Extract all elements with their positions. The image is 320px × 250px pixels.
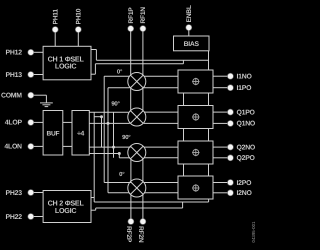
wire RF2N to mixer I2 xyxy=(142,195,144,219)
pin PH11 xyxy=(52,27,58,33)
wire RF1N to mixer I1 xyxy=(142,31,144,75)
svg-text:Q2NO: Q2NO xyxy=(237,144,256,151)
CH1 phase select logic U1 xyxy=(43,46,91,80)
svg-text:RF2N: RF2N xyxy=(137,226,144,243)
wire output I2PO xyxy=(213,182,228,184)
wire 4LOP to BUF xyxy=(34,121,43,123)
pin PH12 xyxy=(28,49,34,55)
LO line divider to mixer Q2 upper xyxy=(89,146,130,148)
svg-text:I2PO: I2PO xyxy=(237,180,253,187)
output amp I2 xyxy=(178,176,213,199)
svg-text:Q1NO: Q1NO xyxy=(237,121,256,128)
summing node Q2 xyxy=(193,150,199,156)
pin Q1NO xyxy=(227,120,233,126)
svg-text:PH13: PH13 xyxy=(6,72,23,79)
svg-text:RF1N: RF1N xyxy=(140,7,147,24)
svg-text:LOGIC: LOGIC xyxy=(55,62,77,71)
summing node I2 xyxy=(193,185,199,191)
svg-text:4LON: 4LON xyxy=(4,144,22,151)
svg-text:BIAS: BIAS xyxy=(184,41,200,48)
CH1 control line lower xyxy=(95,63,183,65)
wire PH22 to CH2 logic xyxy=(34,216,43,218)
wire PH13 to CH1 logic xyxy=(34,74,43,76)
LO line divider to mixer Q1 lower xyxy=(89,122,130,124)
mixer I1 (0 deg) xyxy=(128,73,146,91)
output amp Q2 xyxy=(178,141,213,164)
wire output I1PO xyxy=(213,87,228,89)
svg-text:0°: 0° xyxy=(119,171,125,178)
pin RF2N xyxy=(140,219,146,225)
pin I2PO xyxy=(227,180,233,186)
pin RF2P xyxy=(128,219,134,225)
pin RF1N xyxy=(140,26,146,32)
CH2 logic stub lower xyxy=(91,209,96,211)
mixer Q1 (90 deg) xyxy=(128,108,146,126)
svg-text:RF1P: RF1P xyxy=(128,7,135,24)
wires mixer I1 outputs to amp xyxy=(144,75,178,77)
wire RF2P mixer I2 to mixer Q2 xyxy=(130,159,132,181)
LO line divider to mixer Q1 upper xyxy=(89,111,128,113)
wire COMM to ground xyxy=(34,94,47,96)
wire output Q1NO xyxy=(213,122,228,124)
svg-text:04395-001: 04395-001 xyxy=(251,221,256,243)
CH1 control line to bias rail xyxy=(96,59,208,61)
wire output I1NO xyxy=(213,75,228,77)
pin Q2NO xyxy=(227,144,233,150)
output amp I1 xyxy=(178,70,213,93)
wire RF1N mixer I1 to mixer Q1 xyxy=(142,88,144,110)
pin PH22 xyxy=(28,214,34,220)
CH2 control line upper xyxy=(94,201,208,203)
pin I2NO xyxy=(227,190,233,196)
pin I1NO xyxy=(227,73,233,79)
svg-text:ENBL: ENBL xyxy=(186,5,193,22)
summing node Q1 xyxy=(193,114,199,120)
svg-text:I2NO: I2NO xyxy=(237,190,253,197)
bias block xyxy=(174,36,210,51)
svg-text:90°: 90° xyxy=(122,134,131,141)
svg-text:COMM: COMM xyxy=(1,93,22,100)
svg-text:÷4: ÷4 xyxy=(77,130,84,137)
svg-text:I1NO: I1NO xyxy=(237,74,253,81)
pin COMM xyxy=(28,92,34,98)
LO line into mixer I2 upper xyxy=(104,182,131,184)
wire BUF to divider (upper) xyxy=(63,121,72,123)
LO line mixer Q2 center xyxy=(89,153,119,155)
svg-text:Q1PO: Q1PO xyxy=(237,109,256,116)
LO rail R0 to CH2 logic xyxy=(93,112,95,202)
wire PH11 to CH1 logic xyxy=(54,32,56,46)
wire PH10 to CH1 logic xyxy=(77,32,79,46)
CH1 logic stub upper xyxy=(91,49,96,51)
svg-text:PH12: PH12 xyxy=(6,50,23,57)
LO line into mixer I1 upper xyxy=(104,75,129,77)
wire RF1P to mixer I1 xyxy=(130,31,132,75)
LO rail R2 (I channel a) xyxy=(103,76,105,182)
svg-text:0°: 0° xyxy=(117,68,123,75)
pin I1PO xyxy=(227,85,233,91)
wire PH23 to CH2 logic xyxy=(34,192,43,194)
wire RF2N mixer I2 to mixer Q2 xyxy=(142,159,144,181)
mixer Q2 (90 deg) xyxy=(128,144,146,162)
pin PH13 xyxy=(28,72,34,78)
LO line into mixer I2 lower xyxy=(108,192,129,194)
wire output Q1PO xyxy=(213,111,228,113)
wire ENBL to BIAS xyxy=(188,30,190,36)
wire RF2P to mixer I2 xyxy=(130,195,132,219)
mixer I2 (0 deg) xyxy=(128,179,146,197)
output amp Q1 xyxy=(178,106,213,129)
wire output Q2NO xyxy=(213,146,228,148)
bias feed down to amp I1 xyxy=(208,51,210,70)
CH2 phase select logic U2 xyxy=(43,191,91,223)
svg-text:PH11: PH11 xyxy=(53,9,60,25)
svg-text:BUF: BUF xyxy=(46,130,59,137)
summing node I1 xyxy=(193,79,199,85)
wires mixer Q1 outputs to amp xyxy=(144,111,178,113)
svg-text:Q2PO: Q2PO xyxy=(237,155,256,162)
svg-text:LOGIC: LOGIC xyxy=(55,206,77,215)
pin PH10 xyxy=(75,27,81,33)
wire output I2NO xyxy=(213,192,228,194)
wires mixer Q2 outputs to amp xyxy=(144,146,178,148)
LO line mixer Q1 center xyxy=(94,116,101,118)
pin 4LOP xyxy=(28,119,34,125)
LO buffer BUF xyxy=(43,111,63,156)
ground symbol xyxy=(40,95,53,106)
svg-text:RF2P: RF2P xyxy=(125,226,132,243)
svg-text:PH22: PH22 xyxy=(6,214,23,221)
wire RF1P mixer I1 to mixer Q1 xyxy=(130,88,132,110)
wire BUF to divider (lower) xyxy=(63,145,72,147)
junction LO R5 xyxy=(118,152,121,155)
wire PH12 to CH1 logic xyxy=(34,51,43,53)
LO rail R1 xyxy=(101,117,103,147)
supply rail left between output amps xyxy=(183,93,185,106)
pin PH23 xyxy=(28,190,34,196)
LO rail R5 xyxy=(118,154,120,158)
pin Q1PO xyxy=(227,109,233,115)
svg-text:PH10: PH10 xyxy=(76,8,83,24)
pin 4LON xyxy=(28,143,34,149)
CH2 logic stub upper xyxy=(91,197,94,199)
LO rail R3 (I channel b) xyxy=(107,88,109,193)
wire output Q2PO xyxy=(213,157,228,159)
pin Q2PO xyxy=(227,155,233,161)
svg-text:90°: 90° xyxy=(111,100,120,107)
pin RF1P xyxy=(128,26,134,32)
junction LO R3 xyxy=(107,122,110,125)
LO line into mixer Q2 lower xyxy=(119,157,130,159)
wire 4LON to BUF xyxy=(34,145,43,147)
LO line into mixer I1 lower xyxy=(108,87,130,89)
wires mixer I2 outputs to amp xyxy=(144,182,178,184)
svg-text:4LOP: 4LOP xyxy=(5,120,23,127)
svg-text:PH23: PH23 xyxy=(6,190,23,197)
CH2 control line lower xyxy=(96,207,183,209)
junction LO R4 xyxy=(112,146,115,149)
svg-text:I1PO: I1PO xyxy=(237,85,253,92)
supply rail right between output amps xyxy=(208,93,210,106)
LO rail R4 (Q channel) xyxy=(113,112,115,158)
junction LO R1 xyxy=(100,115,103,118)
pin ENBL xyxy=(186,25,192,31)
CH1 logic stub lower xyxy=(91,73,95,75)
divide-by-4 block xyxy=(72,111,89,156)
